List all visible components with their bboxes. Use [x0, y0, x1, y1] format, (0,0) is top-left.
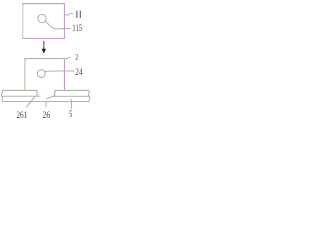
- arrow (placement direction): [43, 41, 45, 49]
- leader squiggle to 11: [65, 13, 74, 15]
- notch 261 left wall: [36, 90, 38, 96]
- svg-text:24: 24: [75, 67, 82, 78]
- alignment hole 115 (circle in top box): [38, 14, 46, 22]
- left break edge (wavy): [1, 90, 2, 101]
- leader squiggle to 2: [65, 57, 71, 58]
- mesh line 5, left section: [2, 95, 41, 97]
- right break edge (wavy): [88, 90, 89, 101]
- svg-text:261: 261: [16, 111, 27, 120]
- plate/mask 11 (top box): [23, 4, 65, 39]
- leader line to 261: [26, 96, 35, 107]
- carrier top line, right section: [55, 89, 89, 91]
- svg-text:5: 5: [69, 110, 72, 120]
- svg-text:115: 115: [72, 23, 82, 34]
- leader line to 115: [45, 21, 70, 29]
- carrier top line, left section (box 2 bottom rests on it): [2, 89, 37, 91]
- frame 2 (bottom box): [25, 59, 65, 90]
- leader line to 26: [45, 102, 48, 108]
- leader line to 5: [70, 99, 73, 109]
- svg-text:2: 2: [75, 52, 78, 61]
- notch 261 right wall: [54, 90, 56, 95]
- leader line to 24: [45, 70, 75, 73]
- svg-text:26: 26: [43, 111, 51, 120]
- mesh line 5, right section: [53, 95, 90, 97]
- hole 24 (circle in bottom box): [37, 70, 45, 78]
- screen bottom line: [2, 100, 89, 102]
- notch slanted bottom: [46, 95, 55, 99]
- label 11: [77, 11, 80, 18]
